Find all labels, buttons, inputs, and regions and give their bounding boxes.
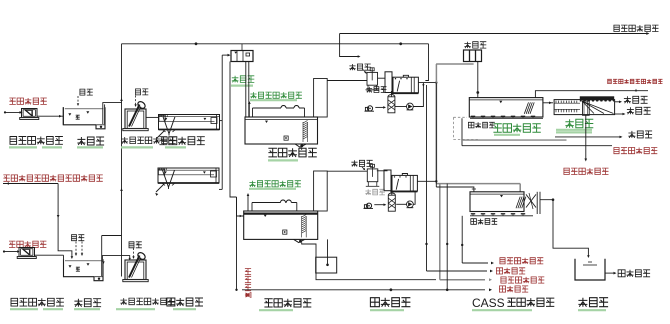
label: connect to main outfall pipe	[618, 270, 650, 277]
label: reaction tank 1	[366, 87, 386, 93]
label: mechanical screen well 1	[121, 137, 175, 144]
label: regulating tank 1	[77, 137, 104, 145]
red vertical label: nutrient dosing	[245, 269, 251, 275]
recycle pump 1	[407, 103, 414, 110]
utility row 4 label: connect filtrate tank	[499, 286, 528, 292]
air compressor 2	[366, 203, 371, 208]
red label: sludge return from primary sedimentation tank	[608, 79, 663, 83]
vertical collector to trains distribution well	[221, 55, 223, 189]
lime dosing 4: text	[129, 242, 142, 248]
decanter on basin 2	[526, 194, 536, 207]
mechanical screen well 1 (ji xie ge shan ji shui jing)	[125, 109, 146, 129]
air pipe basin 2 down to inlet row	[461, 216, 463, 263]
sump pit box below anaerobic tank 2	[316, 257, 337, 273]
wire: branch to mechanical screen well 2	[102, 256, 130, 259]
anaerobic hydrolysis tank 1	[245, 117, 318, 144]
gray branch to sludge thickening (row 3)	[439, 184, 441, 280]
red label: to sludge thickening tank (top right)	[614, 25, 659, 31]
riser duct from anaerobic tank 2	[314, 171, 328, 211]
gray drop to basin 2 feed line	[435, 64, 437, 184]
header end drop to DAF 1 outlet	[425, 44, 428, 81]
main vertical: DAF outlets down to basin 2 inlet	[435, 83, 437, 187]
feed line: anaerobic duct 1 to reaction tank 1	[327, 80, 367, 82]
lime dosing 1: dashed pipe	[77, 96, 79, 104]
red inlet label: high-concentration wastewater	[9, 98, 46, 104]
red label: supernatant from thickener, dewatering-room wastewater	[3, 175, 102, 181]
inlet arrow into trains distribution well	[222, 54, 229, 56]
buffer tank outfall arrow	[605, 272, 615, 274]
regulating tank 1 (tiao jie chi)	[63, 107, 96, 125]
label: blower aeration 1 (gu feng bao qi)	[468, 122, 494, 128]
saturator vessel 2	[388, 195, 395, 211]
label: air flotation device	[370, 298, 410, 307]
utility row 1: from blower room	[462, 262, 488, 264]
header line to distribution well (top)	[122, 43, 429, 45]
riser from regulating tank 1	[103, 103, 122, 124]
CASS aeration basin 2	[470, 192, 524, 212]
label: regulating tank 2	[74, 299, 101, 307]
inlet arrow to coarse screen sump 2	[3, 251, 19, 253]
clarifier effluent arrow 1 + outfall text	[615, 101, 621, 103]
label: coarse screen sump 2	[11, 298, 64, 306]
line to main outfall 3	[555, 136, 621, 138]
label: connect to main outfall 3	[628, 131, 652, 138]
label: primary sedimentation tank 2	[167, 298, 203, 306]
green label: to gas treatment equipment 1	[250, 92, 302, 98]
recycle pump 2	[407, 201, 414, 208]
lime dosing 1: text	[80, 89, 93, 95]
DAF flotation tank 1	[385, 72, 392, 93]
CASS distribution well box	[464, 50, 482, 62]
wire: reaction tank 2 to DAF tank 2	[377, 170, 388, 172]
label: anaerobic hydrolysis tank 1	[268, 148, 316, 157]
regulating tank 2	[64, 259, 95, 277]
flocculant label 2	[351, 160, 372, 166]
wire: sump1 to regulating tank 1	[37, 115, 63, 117]
wire: saturator2 top to DAF tank 2	[391, 188, 393, 195]
branch from header down to flocculant area	[340, 34, 359, 57]
saturator vessel 1 (rong qi guan)	[388, 97, 395, 113]
wire: sed tank 2 outlet to riser pair	[219, 188, 222, 190]
drop pipe joins filtrate line	[446, 184, 448, 290]
lime dosing 2: dashed pipe	[135, 96, 137, 106]
top line: to sludge thickening tank	[340, 33, 648, 35]
clarifier sludge drain down	[585, 115, 587, 160]
feed line: anaerobic duct 2 to reaction tank 2	[327, 170, 367, 172]
downcomer from dist. well toward train 2	[230, 62, 237, 198]
primary sedimentation tank 2 (between trains)	[158, 168, 219, 183]
DAF 2 effluent line	[417, 180, 436, 182]
air compressor 1	[367, 106, 372, 111]
diffuser row basin 2	[470, 215, 533, 217]
main lift pipe (common vertical to header)	[121, 44, 123, 277]
waste vertical down to collection-sump line	[426, 85, 428, 271]
dosing valve symbol	[246, 293, 252, 298]
oil separation sedimentation tank 1	[159, 115, 220, 130]
gas vent pipe 2	[247, 194, 249, 211]
wire: saturator1 top to DAF tank 1	[390, 91, 392, 97]
biogas collection pipe 2	[252, 202, 297, 204]
green label: distribution well (trains)	[232, 76, 255, 83]
basin 2 end wall double line	[536, 192, 538, 214]
drain from anaerobic tank 1 V-notch	[301, 147, 303, 150]
decant line: basin 1 to red return note	[535, 91, 648, 98]
riser from regulating tank 2	[101, 236, 103, 277]
coarse screen sump 2	[19, 248, 35, 257]
wire: basin 1 to secondary clarifier	[543, 102, 553, 104]
biogas collection pipe 1	[253, 107, 305, 109]
anaerobic hydrolysis tank 2	[244, 211, 318, 239]
reaction tank 2 with mixer	[367, 169, 378, 182]
lime dosing 3: text	[72, 235, 85, 241]
wire: riser2 to main lift pipe	[102, 235, 122, 237]
drain from anaerobic tank 2 to sump pit	[302, 243, 436, 280]
wire: mech well 1 to oil-sep tank	[146, 116, 159, 118]
feeder vertical to anaerobic tank 2	[237, 197, 244, 216]
clarifier top black bar (collection launder)	[580, 97, 614, 101]
red inlet label: medium-concentration wastewater	[9, 241, 46, 247]
DAF 1 effluent line	[418, 82, 436, 84]
pipe from supernatant stream	[3, 183, 58, 185]
DAF 1 recycle: tap with down arrow	[422, 84, 424, 87]
clarifier effluent arrow 2 + outfall text	[615, 113, 624, 115]
flocculant label 1 (xu ning ji)	[349, 64, 370, 70]
riser duct from anaerobic tank 1	[314, 79, 328, 118]
wire: sump2 to regulating tank 2	[35, 254, 64, 256]
buffer tank (huan chong chi)	[575, 259, 605, 280]
gray line under basin 1	[462, 139, 567, 141]
wire: pump2 to saturator 2	[396, 203, 406, 205]
basin 2 effluent to buffer tank	[540, 200, 588, 257]
stub from header into distribution well	[241, 44, 243, 51]
clarifier inclined plates	[582, 101, 614, 113]
reaction tank 1 with mixer (fan ying cao)	[367, 72, 378, 85]
svg-text:CASS: CASS	[472, 296, 505, 310]
lime dosing 2: text	[136, 89, 149, 95]
red label: to sludge thickening tank (mid right)	[564, 168, 609, 174]
gray channel: dist well collector	[436, 63, 474, 65]
air main from blower room to basin 1	[462, 145, 612, 147]
wire: reaction tank 1 to DAF tank 1	[378, 77, 386, 79]
trains distribution well box (pei shui jing)	[231, 51, 253, 62]
mechanical screen well 2	[125, 260, 146, 280]
downcomer from dist. well to anaerobic tank 1	[245, 62, 247, 118]
label: reaction tank 2 (faint)	[365, 189, 385, 195]
red label: from blower room (right)	[614, 148, 657, 154]
DAF flotation tank 2	[384, 170, 391, 191]
label: distribution well (CASS)	[464, 42, 486, 48]
green label: secondary clarifier	[565, 119, 593, 127]
inlet arrow to coarse screen sump 1	[4, 111, 21, 113]
green label: to gas treatment equipment 2	[249, 181, 301, 187]
label: anaerobic hydrolysis tank (bottom row)	[264, 299, 311, 307]
secondary clarifier tank (er chen chi)	[554, 100, 615, 115]
label: mechanical screen well 2	[120, 298, 174, 305]
air line: compressor2 to saturator2	[374, 204, 385, 206]
green label: circulating aeration basin	[493, 124, 540, 132]
label: blower aeration 2	[471, 219, 497, 225]
gas vent pipe 1	[248, 102, 250, 117]
label: coarse screen sump 1	[10, 137, 63, 145]
gray basin 2 feed line	[436, 183, 520, 185]
utility row 2: to collection sump	[427, 270, 488, 272]
CASS aeration basin 1	[469, 98, 543, 117]
label: oil separation sedimentation tank 1	[159, 137, 204, 145]
feed drop: dist well to CASS basin 1	[477, 62, 479, 98]
lime dosing 4: dashed pipe	[133, 248, 135, 257]
air pipe: basin1 manifold down to air main	[461, 118, 463, 145]
dashed enclosure around blower text	[453, 117, 455, 139]
wire: oil-sep tank 1 to riser	[220, 120, 223, 122]
diffuser row basin 1	[470, 117, 543, 119]
utility row 3 label: to sludge thickening tank	[501, 277, 544, 283]
lime dosing 3: dashed pipes	[75, 242, 77, 255]
DAF 2 recycle: down pipe	[413, 192, 415, 205]
coarse screen sump 1 (cu ge shan ji shui jing)	[22, 109, 38, 118]
wire: pump1 to saturator 1	[395, 106, 407, 108]
label: buffer tank	[578, 298, 608, 307]
clarifier center well	[583, 101, 590, 115]
air line: compressor1 to saturator1	[375, 106, 385, 108]
long drain line to filtrate tank	[242, 289, 485, 291]
